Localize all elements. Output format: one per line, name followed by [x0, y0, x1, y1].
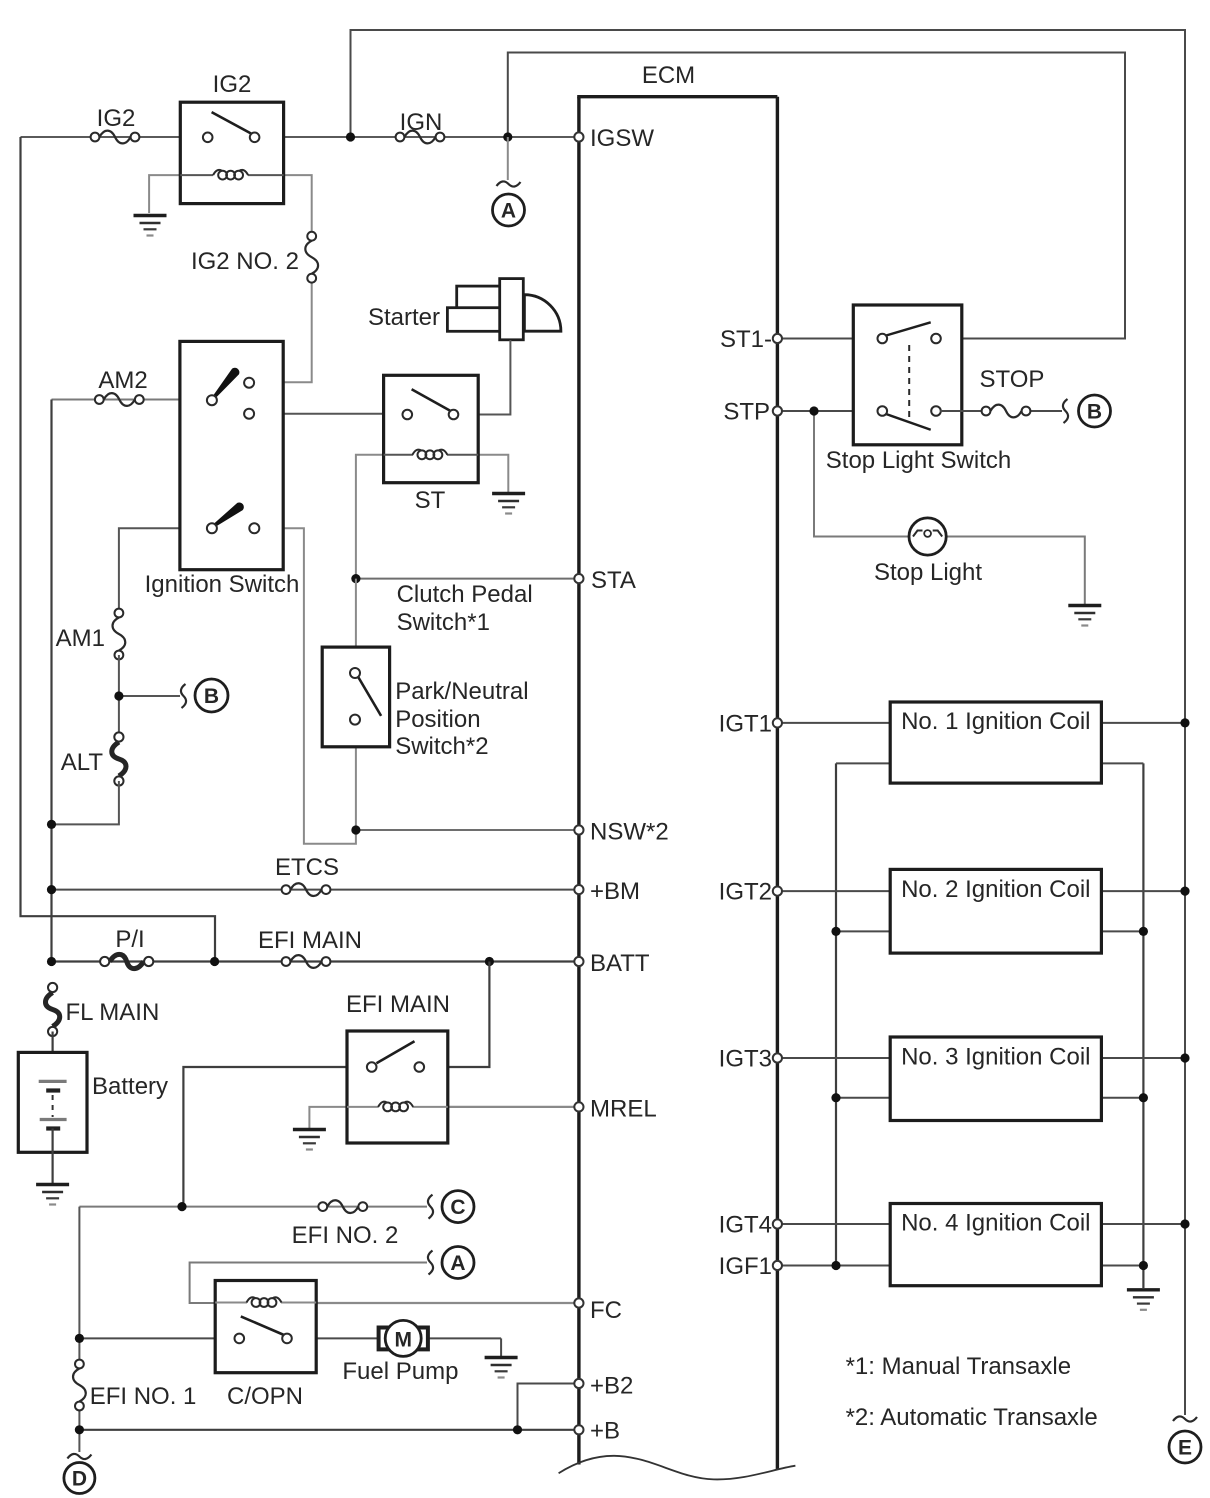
fuse IG2 [91, 131, 140, 144]
node junction +BM-feed [47, 885, 56, 894]
wire ALT down to battery feed [52, 781, 119, 824]
wire ST1- row [777, 338, 884, 340]
wire EFI NO.1 vertical [78, 1207, 80, 1452]
node junction EFI NO.2 [177, 1202, 186, 1211]
wire stop light drop and bulb row [814, 411, 1085, 604]
svg-text:FC: FC [590, 1297, 622, 1324]
svg-text:Switch*2: Switch*2 [395, 733, 488, 760]
wire EFI MAIN relay switch left feed [183, 1067, 372, 1207]
lamp stop light bulb [909, 518, 946, 555]
node junction EFI NO.1 top [75, 1334, 84, 1343]
ignition coil No.4 box [890, 1204, 1101, 1286]
fusible link FL MAIN [45, 983, 59, 1036]
label IGT3 / pin [719, 1046, 782, 1073]
wire starter to ST switch [454, 340, 510, 415]
node junction No.3 IGF [831, 1093, 840, 1102]
svg-text:IGT3: IGT3 [719, 1046, 772, 1073]
wire IGT2 row [777, 890, 1185, 892]
ignition switch box [180, 341, 283, 569]
svg-text:STA: STA [591, 567, 636, 594]
label BATT / pin [574, 950, 650, 977]
switch contact park/neutral [350, 668, 381, 725]
coil EFI MAIN relay [347, 1102, 448, 1112]
switch contact C/OPN relay [235, 1316, 292, 1343]
svg-text:ALT: ALT [61, 749, 104, 776]
starter motor symbol [447, 279, 561, 340]
motor fuel pump [379, 1320, 502, 1356]
wire IG2 coil left to ground [149, 175, 181, 213]
wire ST coil right to ground [478, 455, 508, 492]
svg-text:ST1-: ST1- [720, 326, 772, 353]
node junction NSW*2 [351, 825, 360, 834]
svg-text:C: C [450, 1196, 465, 1219]
coil ST relay [384, 450, 479, 460]
svg-text:Fuel Pump: Fuel Pump [342, 1358, 458, 1385]
node junction IGF1 bus [831, 1261, 840, 1270]
svg-text:STOP: STOP [980, 366, 1045, 393]
svg-text:No. 4 Ignition Coil: No. 4 Ignition Coil [901, 1210, 1090, 1237]
label STA / pin [574, 567, 636, 594]
svg-text:Stop Light: Stop Light [874, 559, 982, 586]
node junction IGN-outer [346, 132, 355, 141]
wire No.1 coil row2 [836, 762, 1143, 764]
svg-text:BATT: BATT [590, 950, 650, 977]
ECM bottom tear wave [559, 1456, 796, 1480]
label IGF1 / pin [719, 1253, 782, 1280]
label IGT2 / pin [719, 879, 782, 906]
ignition coil No.3 box [890, 1037, 1101, 1121]
svg-text:IG2: IG2 [97, 105, 136, 132]
wire No.3 coil row2 [836, 1097, 1143, 1099]
label +B2 / pin [574, 1373, 633, 1400]
ground EFI MAIN relay [293, 1130, 326, 1150]
svg-text:Position: Position [395, 706, 480, 733]
wire NSW*2 row [356, 829, 579, 831]
svg-text:A: A [501, 200, 516, 223]
relay IG2 box [180, 102, 283, 203]
relay ST box [384, 375, 479, 482]
svg-text:D: D [72, 1468, 87, 1491]
stop light switch box [853, 305, 962, 445]
svg-text:Stop Light Switch: Stop Light Switch [826, 447, 1011, 474]
svg-text:STP: STP [723, 399, 770, 426]
svg-text:Switch*1: Switch*1 [397, 609, 490, 636]
svg-text:AM1: AM1 [56, 625, 105, 652]
fuse AM2 [95, 393, 144, 406]
wire +B row [79, 1429, 579, 1431]
wire ignition switch pin to ST relay [250, 413, 384, 415]
svg-text:IGF1: IGF1 [719, 1253, 772, 1280]
svg-text:IGT4: IGT4 [719, 1212, 772, 1239]
svg-text:*2: Automatic Transaxle: *2: Automatic Transaxle [846, 1404, 1098, 1431]
switch contact ignition lower (AM1/ST) [207, 502, 259, 533]
ECM box outline [577, 97, 777, 1470]
wire battery feed vertical x51 [50, 400, 52, 962]
connector C circle [428, 1191, 474, 1223]
connector A circle [493, 181, 525, 226]
relay C/OPN box [215, 1281, 316, 1373]
svg-text:P/I: P/I [115, 926, 144, 953]
wire AM2 row [52, 399, 213, 401]
node junction IGN-inner [503, 132, 512, 141]
wire +B2 stub [518, 1384, 579, 1430]
wire EFI MAIN coil left to ground [309, 1107, 348, 1128]
svg-text:No. 3 Ignition Coil: No. 3 Ignition Coil [901, 1044, 1090, 1071]
fuse IG2 NO. 2 [305, 232, 318, 283]
node junction IGT3 feed [1180, 1053, 1189, 1062]
node junction No.2 IGF [831, 927, 840, 936]
svg-text:IGSW: IGSW [590, 125, 654, 152]
svg-text:Starter: Starter [368, 304, 440, 331]
wire IGT4 row [777, 1223, 1185, 1225]
svg-text:IGT2: IGT2 [719, 879, 772, 906]
battery symbol [18, 1052, 87, 1183]
node junction No.2 gnd [1139, 927, 1148, 936]
wire IGF bus vertical x836 [835, 763, 837, 1265]
label STP / pin [723, 399, 782, 426]
switch linkage dashed [908, 345, 910, 419]
svg-text:+BM: +BM [590, 878, 640, 905]
wire fuel pump to ground [500, 1338, 502, 1356]
svg-text:*1: Manual Transaxle: *1: Manual Transaxle [846, 1353, 1071, 1380]
ground stop light [1068, 606, 1101, 626]
label Clutch Pedal Switch*1 [397, 581, 533, 636]
switch contact ST relay [403, 389, 459, 419]
svg-text:MREL: MREL [590, 1096, 657, 1123]
wire MREL row [446, 1106, 579, 1108]
ground ignition coils [1127, 1290, 1160, 1310]
svg-text:ST: ST [415, 487, 446, 514]
wire STA row [356, 578, 579, 580]
wire EFI NO.2 row [79, 1206, 427, 1208]
wire AM1 to ALT [118, 655, 120, 737]
wire fuel pump switch row [79, 1337, 378, 1339]
fuse EFI MAIN [282, 955, 331, 968]
node junction ALT-feed [47, 820, 56, 829]
connector B stop circle [1063, 395, 1111, 427]
node junction No.3 gnd [1139, 1093, 1148, 1102]
svg-text:FL MAIN: FL MAIN [66, 999, 160, 1026]
node junction IGT2 feed [1180, 887, 1189, 896]
svg-text:+B: +B [590, 1418, 620, 1445]
node junction +B2/+B [513, 1425, 522, 1434]
ground battery [36, 1185, 69, 1205]
svg-text:Battery: Battery [92, 1073, 168, 1100]
switch contact IG2 relay [203, 112, 260, 142]
svg-text:IG2: IG2 [213, 71, 252, 98]
wire left feed from IG2 fuse down to BATT row [21, 137, 216, 962]
wire IGT3 row [777, 1057, 1185, 1059]
svg-text:NSW*2: NSW*2 [590, 819, 669, 846]
svg-text:Ignition Switch: Ignition Switch [145, 571, 300, 598]
park/neutral position switch box [322, 647, 389, 747]
node junction STP [809, 406, 818, 415]
node junction +B left [75, 1425, 84, 1434]
svg-text:+B2: +B2 [590, 1373, 633, 1400]
label IGT1 / pin [719, 711, 782, 738]
connector A drop from IGSW row [507, 137, 509, 180]
label NSW*2 / pin [574, 819, 668, 846]
svg-text:Clutch Pedal: Clutch Pedal [397, 581, 533, 608]
coil IG2 relay [180, 170, 283, 180]
label ST1- / pin [720, 326, 782, 353]
connector D circle [64, 1454, 95, 1494]
connector B circle [181, 679, 228, 712]
svg-text:E: E [1178, 1437, 1192, 1460]
label IGSW / pin [574, 125, 654, 152]
svg-text:No. 1 Ignition Coil: No. 1 Ignition Coil [901, 708, 1090, 735]
svg-text:ECM: ECM [642, 62, 695, 89]
connector A2 circle [428, 1247, 474, 1279]
svg-text:IGN: IGN [400, 109, 443, 136]
wire connector A2 to C/OPN coil [190, 1263, 427, 1304]
wire P/N switch vertical [355, 579, 357, 830]
fuse STOP [982, 405, 1031, 418]
fuse AM1 [113, 609, 126, 660]
svg-text:M: M [394, 1328, 412, 1351]
svg-text:No. 2 Ignition Coil: No. 2 Ignition Coil [901, 876, 1090, 903]
wire IGT1 row [777, 722, 1185, 724]
fuse ETCS [282, 883, 331, 896]
wire junction to connector B [119, 695, 180, 697]
wire ST1- loop inner [508, 53, 1125, 339]
wire STP row [777, 410, 884, 412]
label Park/Neutral Position Switch*2 [395, 678, 528, 760]
svg-text:AM2: AM2 [98, 367, 147, 394]
node junction STA [351, 574, 360, 583]
label +B / pin [574, 1418, 620, 1445]
wire IGF1 row [777, 1265, 1143, 1267]
wire STOP fuse row [940, 410, 1062, 412]
fuse EFI NO. 2 [318, 1200, 367, 1213]
node junction BATT-left-feed [210, 957, 219, 966]
ground IG2 relay [134, 216, 167, 236]
switch contact stop light STP row [878, 406, 941, 430]
wire coil ground bus vertical x1143 [1142, 763, 1144, 1288]
ground ST relay [492, 494, 525, 514]
wire EFI MAIN relay switch right to BATT [420, 962, 489, 1068]
svg-text:C/OPN: C/OPN [227, 1383, 303, 1410]
node junction IGT1 feed [1180, 718, 1189, 727]
svg-text:EFI MAIN: EFI MAIN [346, 991, 450, 1018]
switch contact ignition upper (AM2/IG2) [207, 368, 254, 419]
svg-text:EFI MAIN: EFI MAIN [258, 927, 362, 954]
wire +BM row [52, 889, 579, 891]
fuse EFI NO. 1 [73, 1360, 86, 1411]
switch contact stop light ST1- row [878, 322, 941, 343]
svg-text:IG2 NO. 2: IG2 NO. 2 [191, 248, 299, 275]
connector E circle [1169, 1416, 1201, 1463]
switch contact EFI MAIN relay [367, 1041, 424, 1071]
node junction AM1-B [114, 691, 123, 700]
wire IGSW row [21, 136, 579, 138]
ignition coil No.1 box [890, 702, 1101, 783]
svg-text:A: A [450, 1252, 465, 1275]
node junction BATT-feed [47, 957, 56, 966]
fusible link ALT [112, 732, 126, 785]
node junction IGT4 feed [1180, 1219, 1189, 1228]
node junction No.4 gnd [1139, 1261, 1148, 1270]
wire ignition switch lower right to NSW net [255, 528, 356, 844]
svg-text:Park/Neutral: Park/Neutral [395, 678, 528, 705]
ignition coil No.2 box [890, 869, 1101, 953]
svg-text:EFI NO. 2: EFI NO. 2 [292, 1222, 399, 1249]
coil C/OPN relay [215, 1297, 316, 1307]
wire IG2 coil right to IG2 NO.2 fuse and ignition switch pin [250, 175, 312, 382]
wire BATT row [52, 960, 579, 962]
label MREL / pin [574, 1096, 656, 1123]
wire FL MAIN to battery [51, 1032, 53, 1082]
wire IGSW feed top outer [351, 30, 1186, 1415]
label FC / pin [574, 1297, 622, 1324]
relay EFI MAIN box [347, 1031, 448, 1143]
svg-text:B: B [1087, 401, 1102, 424]
svg-text:IGT1: IGT1 [719, 711, 772, 738]
fuse IGN [396, 131, 445, 144]
label IGT4 / pin [719, 1212, 782, 1239]
svg-text:ETCS: ETCS [275, 854, 339, 881]
wire ST coil left to STA net [356, 455, 384, 579]
wire ignition switch lower left to AM1 [119, 528, 212, 610]
wire No.2 coil row2 [836, 930, 1143, 932]
fusible link P/I [100, 954, 153, 968]
svg-text:EFI NO. 1: EFI NO. 1 [90, 1383, 197, 1410]
ground fuel pump [485, 1358, 518, 1378]
label +BM / pin [574, 878, 640, 905]
svg-text:B: B [204, 685, 219, 708]
wire FC row from C/OPN coil [316, 1302, 579, 1304]
node junction BATT-EFI-relay [485, 957, 494, 966]
